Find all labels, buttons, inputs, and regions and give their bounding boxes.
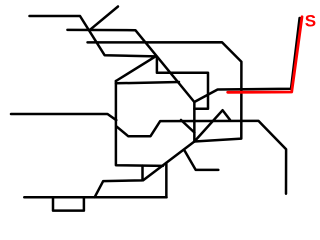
wire: bowl line rising into long central horizontal, corner down to right vertical (116, 121, 286, 194)
wire: short diagonal into central vertical (181, 120, 194, 133)
svg-text:S: S (305, 12, 316, 31)
wire: rectangle top edge (116, 82, 179, 83)
wire: small rectangle loop (vertical, horizontal, vertical, rung left) (157, 57, 208, 109)
wire: branch line 2 with long diagonal to V bottom, up to right horizontal trunk (67, 18, 299, 102)
wire: vertical from long diagonal down to bottom line (165, 163, 168, 197)
wire: central vertical from V bottom to lower junction (193, 102, 196, 142)
wire: red S line (228, 17, 302, 93)
wire: short diagonal spur at top crossing (90, 7, 118, 30)
wire: long diagonal from lower-left up to junction (143, 142, 194, 181)
wire: long bottom horizontal (24, 196, 166, 199)
wire: diagonal through horizontal up to caret peak and right leg (194, 110, 230, 141)
wire: spur off long diagonal, down-right then horizontal (184, 150, 218, 170)
wire: left rectangle side and bottom edge (116, 81, 163, 166)
wire: left long horizontal with jog into left rectangle side (11, 114, 116, 120)
wire: bottom bump rectangle (53, 197, 84, 210)
wire: drop vertical from mini-rect corner to lower horizontal (95, 166, 143, 198)
wire: branch line 3 horizontal, diagonal corner, long vertical, bottom turn to junction (88, 42, 242, 141)
wire: diagonal spur from rectangle corner up-right to junction (116, 56, 156, 81)
wire: top-left branch line 1 (horizontal then diagonal then horizontal into junction) (30, 16, 156, 56)
